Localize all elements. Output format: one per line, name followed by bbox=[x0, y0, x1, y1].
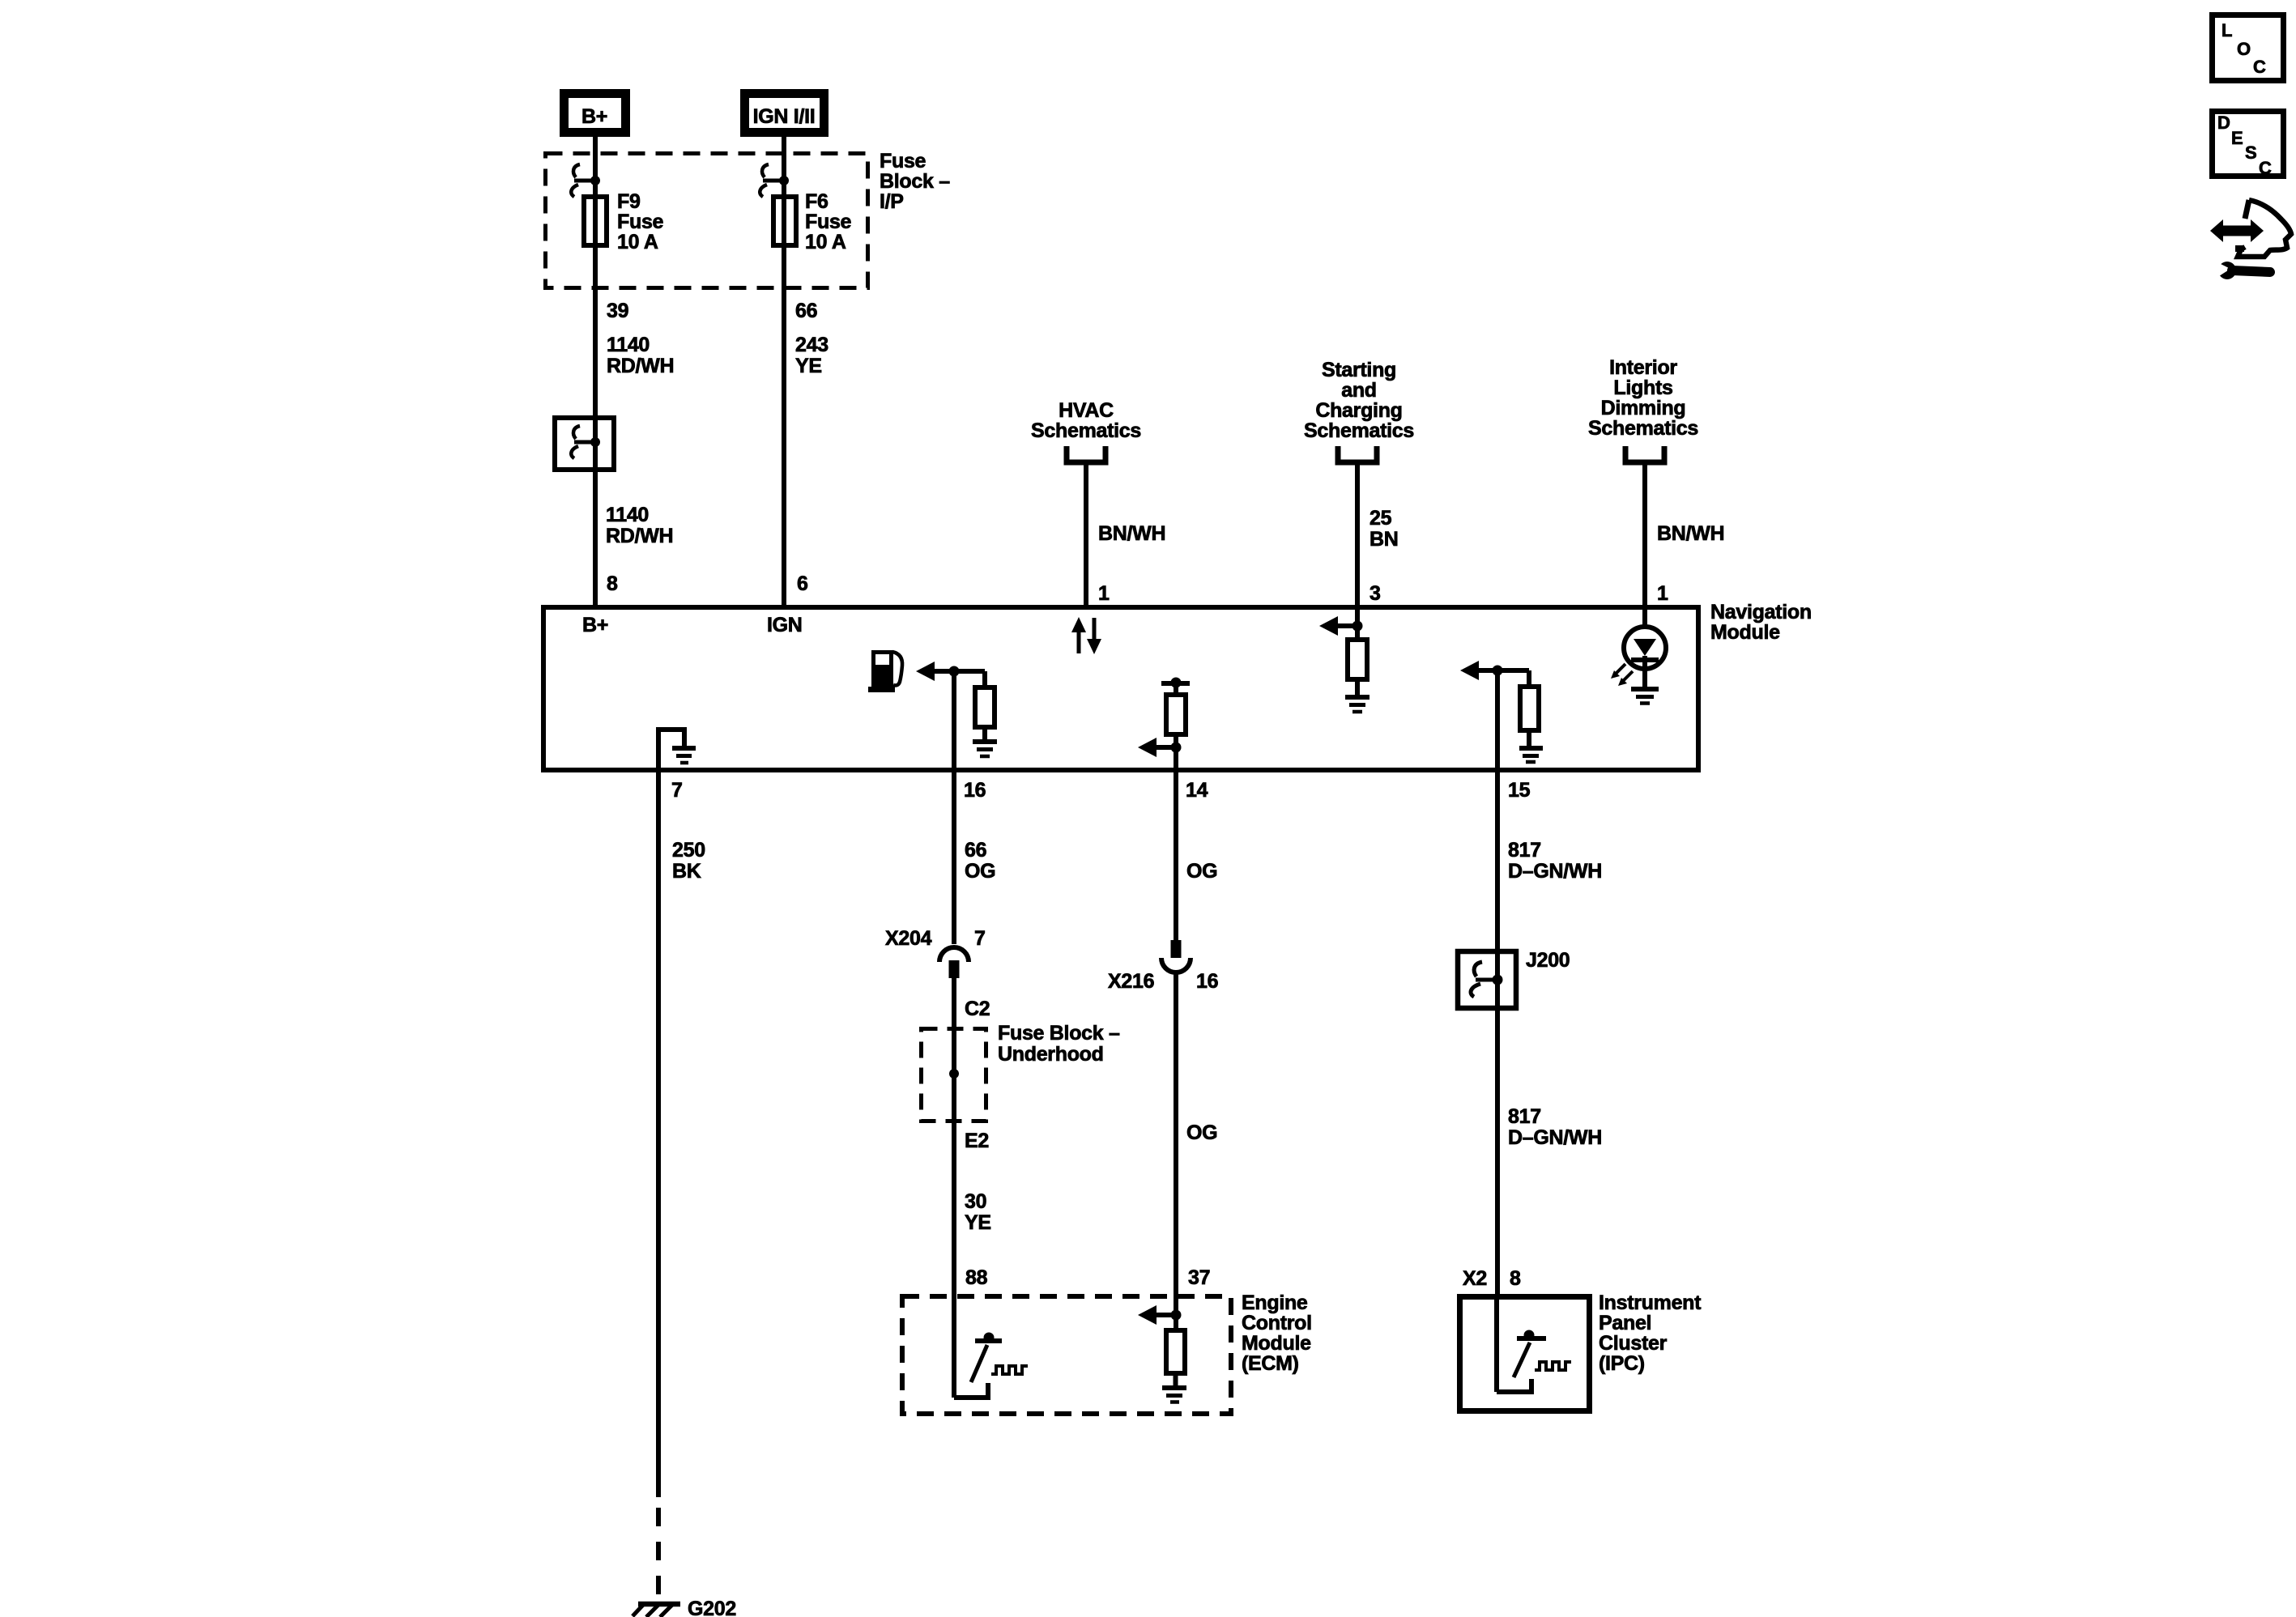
navigation module outline bbox=[543, 607, 1698, 770]
LED indicator bbox=[1624, 627, 1666, 687]
svg-text:88: 88 bbox=[965, 1266, 988, 1289]
ground G202 chassis bbox=[633, 1603, 680, 1617]
svg-text:243: 243 bbox=[795, 334, 829, 356]
ECM dashed outline bbox=[902, 1296, 1231, 1414]
terminal bar pin 14 net bbox=[1161, 678, 1190, 688]
svg-text:D–GN/WH: D–GN/WH bbox=[1508, 860, 1602, 883]
junction dot pin 16 net bbox=[949, 666, 960, 677]
dashed wire to G202 bbox=[656, 1508, 661, 1600]
ground pin 3 net bbox=[1345, 697, 1370, 712]
label F9 Fuse 10 A bbox=[617, 190, 664, 253]
repair instructions icon bbox=[2210, 200, 2291, 279]
label Fuse Block - Underhood bbox=[998, 1022, 1120, 1066]
power terminal IGN I/II box bbox=[745, 94, 824, 133]
svg-text:BN/WH: BN/WH bbox=[1657, 522, 1724, 545]
svg-text:Dimming: Dimming bbox=[1601, 397, 1686, 419]
svg-text:3: 3 bbox=[1370, 582, 1381, 605]
off-page bracket Starting bbox=[1338, 446, 1377, 462]
svg-text:Schematics: Schematics bbox=[1588, 417, 1698, 440]
svg-text:Schematics: Schematics bbox=[1304, 419, 1414, 442]
svg-text:O: O bbox=[2237, 39, 2251, 59]
svg-text:X216: X216 bbox=[1108, 970, 1154, 993]
label Engine Control Module ECM bbox=[1242, 1291, 1312, 1375]
junction dot pin 15 net bbox=[1493, 666, 1503, 676]
svg-text:10 A: 10 A bbox=[805, 231, 846, 253]
svg-text:25: 25 bbox=[1370, 507, 1392, 530]
svg-text:B+: B+ bbox=[582, 614, 608, 636]
svg-text:Control: Control bbox=[1242, 1312, 1312, 1334]
label Fuse Block - I/P bbox=[880, 150, 950, 213]
resistor pin 3 net bbox=[1348, 640, 1367, 697]
arrow fuel level signal bbox=[916, 662, 985, 681]
resistor pin 16 net bbox=[975, 671, 995, 742]
svg-text:BN: BN bbox=[1370, 528, 1399, 551]
svg-text:D–GN/WH: D–GN/WH bbox=[1508, 1126, 1602, 1149]
wire label 30 YE bbox=[965, 1190, 991, 1234]
svg-text:J200: J200 bbox=[1526, 949, 1570, 972]
wire 30 YE X204 to ECM pin 88 bbox=[952, 978, 956, 1296]
wire 817 D-GN/WH pin 15 to J200 bbox=[1495, 670, 1500, 951]
internal ground pin 7 net bbox=[658, 730, 696, 770]
svg-text:IGN: IGN bbox=[767, 614, 803, 636]
svg-text:8: 8 bbox=[607, 572, 618, 595]
off-page bracket HVAC bbox=[1067, 446, 1105, 462]
svg-text:250: 250 bbox=[672, 839, 705, 862]
svg-text:OG: OG bbox=[1186, 860, 1217, 883]
svg-text:Block –: Block – bbox=[880, 170, 950, 193]
svg-text:Module: Module bbox=[1710, 621, 1780, 644]
connector X204 bbox=[939, 947, 969, 978]
fuse block I/P dashed outline bbox=[546, 154, 868, 288]
wire 1140 RD/WH from B+ to navigation module pin 8 bbox=[593, 137, 598, 610]
label HVAC Schematics bbox=[1031, 399, 1141, 442]
label Starting and Charging Schematics bbox=[1304, 359, 1414, 442]
svg-text:F9: F9 bbox=[617, 190, 641, 213]
svg-text:14: 14 bbox=[1186, 779, 1208, 802]
svg-text:817: 817 bbox=[1508, 839, 1541, 862]
ECM low-side driver pin 88 bbox=[954, 1296, 1028, 1398]
wire label 25 BN bbox=[1370, 507, 1399, 551]
connector X216 bbox=[1161, 940, 1191, 972]
svg-text:Schematics: Schematics bbox=[1031, 419, 1141, 442]
ECM pull-down pin 37 bbox=[1138, 1296, 1185, 1388]
wire OG X216 to ECM pin 37 bbox=[1174, 972, 1178, 1296]
svg-text:Engine: Engine bbox=[1242, 1291, 1308, 1314]
wire 243 YE from IGN I/II to navigation module pin 6 bbox=[782, 137, 786, 610]
svg-text:I/P: I/P bbox=[880, 190, 904, 213]
svg-text:Navigation: Navigation bbox=[1710, 601, 1812, 623]
svg-text:Lights: Lights bbox=[1613, 377, 1672, 399]
svg-text:Module: Module bbox=[1242, 1332, 1311, 1355]
ground pin 16 net bbox=[973, 742, 997, 756]
svg-text:B+: B+ bbox=[581, 105, 607, 128]
svg-text:(IPC): (IPC) bbox=[1599, 1352, 1645, 1375]
svg-text:Fuse: Fuse bbox=[617, 211, 664, 233]
svg-text:1140: 1140 bbox=[607, 334, 650, 356]
arrow pin 14 net bbox=[1138, 738, 1176, 757]
svg-text:YE: YE bbox=[795, 355, 822, 377]
wire label 250 BK bbox=[672, 839, 705, 883]
DESC icon bbox=[2213, 112, 2284, 179]
svg-text:Fuse Block –: Fuse Block – bbox=[998, 1022, 1120, 1045]
LOC icon bbox=[2213, 15, 2284, 81]
svg-text:OG: OG bbox=[1186, 1121, 1217, 1144]
svg-text:IGN I/II: IGN I/II bbox=[753, 105, 816, 128]
svg-text:7: 7 bbox=[974, 927, 986, 950]
label Navigation Module bbox=[1710, 601, 1812, 644]
svg-text:Charging: Charging bbox=[1315, 399, 1402, 422]
fuse F9 10A bbox=[584, 197, 607, 245]
label Instrument Panel Cluster IPC bbox=[1599, 1291, 1702, 1375]
svg-text:Panel: Panel bbox=[1599, 1312, 1651, 1334]
svg-text:C: C bbox=[2253, 57, 2266, 77]
svg-text:L: L bbox=[2221, 20, 2232, 40]
svg-text:Cluster: Cluster bbox=[1599, 1332, 1668, 1355]
wire label 1140 RD/WH bbox=[607, 334, 674, 377]
svg-text:X2: X2 bbox=[1463, 1267, 1487, 1290]
off-page bracket Interior bbox=[1625, 446, 1664, 462]
svg-text:RD/WH: RD/WH bbox=[606, 525, 673, 547]
resistor pin 15 net bbox=[1520, 670, 1539, 748]
svg-text:Fuse: Fuse bbox=[880, 150, 926, 172]
svg-text:E2: E2 bbox=[965, 1130, 989, 1152]
LED light arrows bbox=[1611, 664, 1633, 686]
svg-text:66: 66 bbox=[795, 300, 817, 322]
svg-text:C: C bbox=[2259, 158, 2272, 178]
label F6 Fuse 10 A bbox=[805, 190, 852, 253]
wire label 817 D-GN/WH bbox=[1508, 839, 1602, 883]
svg-text:G202: G202 bbox=[688, 1598, 736, 1617]
svg-text:7: 7 bbox=[671, 779, 683, 802]
svg-text:F6: F6 bbox=[805, 190, 829, 213]
svg-text:S: S bbox=[2245, 143, 2257, 163]
label Interior Lights Dimming Schematics bbox=[1588, 356, 1698, 440]
power terminal B+ box bbox=[564, 94, 626, 133]
svg-text:X204: X204 bbox=[885, 927, 932, 950]
ground pin 15 net bbox=[1519, 748, 1543, 762]
wire 817 J200 to IPC pin 8 bbox=[1495, 1008, 1500, 1296]
svg-text:66: 66 bbox=[965, 839, 986, 862]
wire label 1140 RD/WH lower bbox=[606, 504, 673, 547]
svg-text:BK: BK bbox=[672, 860, 701, 883]
svg-text:Underhood: Underhood bbox=[998, 1043, 1104, 1066]
svg-text:(ECM): (ECM) bbox=[1242, 1352, 1299, 1375]
fuse block underhood dashed outline bbox=[922, 1029, 986, 1121]
wire 66 OG pin 16 to X204 bbox=[952, 671, 956, 944]
resistor pin 14 net bbox=[1166, 683, 1186, 734]
wire BN/WH HVAC bbox=[1084, 465, 1088, 610]
IPC solid outline bbox=[1460, 1297, 1590, 1411]
svg-text:HVAC: HVAC bbox=[1059, 399, 1114, 422]
wire label 243 YE bbox=[795, 334, 829, 377]
svg-text:BN/WH: BN/WH bbox=[1098, 522, 1165, 545]
svg-text:8: 8 bbox=[1510, 1267, 1521, 1290]
svg-text:YE: YE bbox=[965, 1211, 991, 1234]
svg-text:16: 16 bbox=[1196, 970, 1218, 993]
wire OG pin 14 to X216 bbox=[1174, 734, 1178, 942]
svg-text:15: 15 bbox=[1508, 779, 1531, 802]
svg-text:Interior: Interior bbox=[1609, 356, 1677, 379]
fuse F6 10A bbox=[773, 197, 796, 245]
ground LED net bbox=[1631, 689, 1659, 704]
arrow pin 3 net bbox=[1319, 616, 1357, 636]
serial data arrows bbox=[1071, 617, 1101, 654]
svg-text:Instrument: Instrument bbox=[1599, 1291, 1702, 1314]
svg-text:6: 6 bbox=[797, 572, 808, 595]
ground ECM pin 37 bbox=[1162, 1388, 1186, 1402]
svg-text:1140: 1140 bbox=[606, 504, 649, 526]
arrow pin 15 net bbox=[1460, 661, 1529, 680]
svg-text:C2: C2 bbox=[965, 998, 990, 1020]
svg-text:1: 1 bbox=[1657, 582, 1668, 605]
svg-text:10 A: 10 A bbox=[617, 231, 658, 253]
svg-text:37: 37 bbox=[1188, 1266, 1210, 1289]
svg-text:39: 39 bbox=[607, 300, 628, 322]
fuel pump icon bbox=[868, 650, 902, 692]
IPC low-side driver pin 8 bbox=[1497, 1296, 1571, 1392]
svg-text:and: and bbox=[1341, 379, 1377, 402]
svg-text:Fuse: Fuse bbox=[805, 211, 852, 233]
wire label 66 OG bbox=[965, 839, 995, 883]
svg-text:RD/WH: RD/WH bbox=[607, 355, 674, 377]
wire 250 BK bbox=[656, 768, 661, 1497]
svg-text:30: 30 bbox=[965, 1190, 986, 1213]
svg-text:1: 1 bbox=[1098, 582, 1110, 605]
svg-text:16: 16 bbox=[964, 779, 986, 802]
svg-text:817: 817 bbox=[1508, 1105, 1541, 1128]
junction block J200 bbox=[1458, 951, 1516, 1008]
connector terminal at fuse F6 bbox=[760, 164, 789, 197]
svg-text:D: D bbox=[2217, 113, 2230, 133]
junction dot pin 3 net bbox=[1352, 621, 1363, 632]
svg-text:Starting: Starting bbox=[1322, 359, 1396, 381]
connector terminal at fuse F9 bbox=[571, 164, 600, 197]
wire 25 BN bbox=[1355, 465, 1360, 641]
wire label 817 D-GN/WH lower bbox=[1508, 1105, 1602, 1149]
splice dot in underhood block bbox=[949, 1069, 959, 1079]
splice connector box on B+ wire bbox=[555, 418, 614, 470]
svg-text:OG: OG bbox=[965, 860, 995, 883]
junction dot pin 14 net bbox=[1171, 743, 1182, 753]
svg-text:E: E bbox=[2231, 128, 2243, 148]
wire BN/WH Interior bbox=[1642, 465, 1647, 628]
